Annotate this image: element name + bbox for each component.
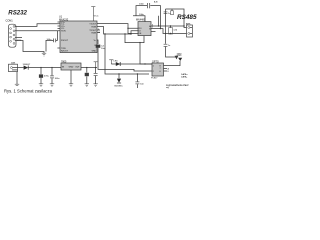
svg-text:MAX485: MAX485 bbox=[136, 18, 146, 21]
svg-text:Rys. 1 Schemat zasilacza: Rys. 1 Schemat zasilacza bbox=[4, 89, 53, 94]
U1 internal pin labels left bbox=[61, 22, 69, 53]
U1 left pin stubs bbox=[57, 22, 60, 48]
node dot R1 top bbox=[170, 25, 171, 26]
ground C2 bbox=[50, 84, 54, 87]
power flag +5V on rail bbox=[94, 62, 98, 68]
optocoupler U4 body bbox=[152, 63, 164, 76]
diode D2 on row bbox=[116, 62, 120, 66]
svg-text:100n: 100n bbox=[47, 39, 53, 41]
ground arrow right bbox=[175, 56, 179, 60]
svg-text:GND: GND bbox=[69, 67, 74, 69]
wire DB9 pin7 stub bbox=[15, 37, 22, 39]
node dot on B bbox=[165, 33, 166, 34]
capacitor C10 bbox=[136, 74, 138, 82]
svg-text:470u: 470u bbox=[44, 75, 50, 77]
wire U1 R1IN routed bbox=[97, 27, 138, 34]
wire U1 bottom right rail down bbox=[105, 34, 149, 74]
node dot R1IN bbox=[130, 33, 131, 34]
connector J1 pins column left bbox=[10, 28, 12, 42]
svg-text:GND: GND bbox=[177, 55, 182, 57]
ground U3 bbox=[69, 84, 73, 87]
svg-text:PC817: PC817 bbox=[151, 78, 158, 80]
node dot A bbox=[158, 25, 159, 26]
svg-text:1N4007: 1N4007 bbox=[23, 64, 31, 66]
wire DE/RE control bbox=[125, 34, 144, 43]
wire R1 to A bbox=[170, 26, 172, 28]
capacitor C9 on vertical bbox=[164, 44, 168, 46]
wire DB9 pin3 to U1 bbox=[15, 30, 60, 32]
svg-text:LED: LED bbox=[114, 60, 119, 62]
wire termination vertical bbox=[165, 9, 167, 44]
diode D1 bbox=[24, 66, 29, 70]
svg-text:T1OUT: T1OUT bbox=[89, 23, 97, 25]
capacitor C2 bbox=[51, 68, 53, 76]
U2 right pin3 stub bbox=[151, 30, 156, 32]
svg-text:BZX85C: BZX85C bbox=[115, 86, 124, 88]
svg-text:wyprowadzenia zlacz: wyprowadzenia zlacz bbox=[166, 84, 189, 87]
node dot B bbox=[160, 28, 161, 29]
wire C9 to ground bbox=[166, 47, 177, 57]
U2 internal labels bbox=[139, 28, 142, 35]
connector J2 body bbox=[187, 25, 193, 37]
svg-text:R1IN: R1IN bbox=[91, 26, 96, 28]
connector J1 DB9 body bbox=[9, 24, 17, 47]
power flag +5V above U1 bbox=[91, 7, 95, 21]
wire DB9 pin5 gnd route bbox=[15, 41, 44, 54]
power jack pin bbox=[11, 67, 13, 69]
svg-text:100n: 100n bbox=[55, 78, 61, 80]
svg-text:R2IN: R2IN bbox=[91, 32, 96, 34]
U1 right stubs bbox=[97, 30, 100, 33]
wire jack to D1 bbox=[18, 67, 24, 69]
node dot bbox=[104, 33, 105, 34]
wire net A vertical bbox=[158, 16, 160, 26]
wire U2 A to connector bbox=[151, 26, 187, 28]
electrolytic capacitor C5 bbox=[86, 68, 88, 73]
svg-text:RS232: RS232 bbox=[8, 10, 27, 17]
connector J2 pins bbox=[188, 27, 190, 35]
wire R1 bottom to B bbox=[170, 33, 172, 36]
wire U2 VCC bbox=[133, 16, 145, 22]
capacitor C8 top right box bbox=[171, 11, 174, 15]
wire cap to net B vertical bbox=[150, 6, 160, 29]
ground C5 bbox=[85, 84, 89, 87]
node dot T1OUT bbox=[127, 28, 128, 29]
svg-text:100n: 100n bbox=[139, 4, 145, 6]
capacitor C3 branch from pin wire bbox=[56, 31, 57, 41]
svg-text:VCC: VCC bbox=[94, 16, 99, 18]
wire jack ground bbox=[16, 72, 18, 84]
wire regulator ground bbox=[70, 70, 72, 84]
svg-text:A B: A B bbox=[154, 1, 158, 4]
wire branch to U2 pin3 bbox=[128, 28, 138, 33]
wire regulator output rail bbox=[81, 67, 97, 69]
svg-text:R1OUT: R1OUT bbox=[61, 40, 69, 42]
wire U4 right top bbox=[164, 61, 181, 66]
capacitor C7 plates bbox=[148, 3, 150, 8]
capacitor C3 plates bbox=[54, 39, 56, 43]
wire U2 B to connector bbox=[151, 29, 187, 34]
wire top right loop bbox=[166, 9, 185, 26]
ground DB9 bbox=[42, 53, 46, 56]
wire LED row bbox=[111, 63, 152, 65]
node dot row bbox=[144, 63, 145, 64]
ground C1 bbox=[39, 84, 43, 87]
ground C6 bbox=[93, 84, 97, 87]
capacitor C3 left lead to ground wire bbox=[46, 40, 53, 51]
resistor R1 termination bbox=[169, 28, 173, 34]
regulator U3 body bbox=[61, 63, 81, 70]
svg-text:R2OUT: R2OUT bbox=[61, 50, 69, 52]
connector J1 pins column right bbox=[13, 26, 15, 45]
U1 pin numbers right bbox=[98, 29, 101, 34]
IC U1 MAX232 body bbox=[60, 21, 97, 53]
U4 right pin stubs bbox=[164, 68, 168, 71]
ground jack bbox=[15, 84, 19, 85]
IC U2 MAX485 body bbox=[138, 22, 151, 36]
svg-text:100n: 100n bbox=[139, 14, 145, 16]
wire VCC rail top bbox=[136, 6, 147, 16]
node dot control bbox=[124, 33, 125, 34]
svg-text:RS485: RS485 bbox=[177, 14, 197, 21]
svg-text:T1IN: T1IN bbox=[61, 31, 66, 33]
wire DB9 pin2 to U1 (jog up) bbox=[15, 24, 60, 27]
U1 internal pin labels right bbox=[89, 23, 97, 52]
power flag right bbox=[178, 58, 182, 61]
power jack X1 body bbox=[9, 64, 18, 71]
diode D3 zener bbox=[118, 74, 120, 78]
node dot R1 bottom bbox=[170, 33, 171, 34]
node dot bbox=[183, 25, 184, 26]
wire D1 to regulator bbox=[28, 67, 61, 69]
wire U1 T1OUT to U2 bbox=[97, 24, 138, 29]
wire control down to LED row bbox=[140, 43, 152, 64]
svg-text:GND: GND bbox=[92, 50, 97, 52]
svg-text:OUT: OUT bbox=[75, 67, 80, 69]
svg-text:DATA-: DATA- bbox=[181, 75, 188, 78]
capacitor plates on vertical bbox=[164, 12, 168, 14]
wire C4 down to L2 bbox=[98, 48, 152, 71]
power flag +5V LED row bbox=[109, 60, 113, 64]
electrolytic capacitor C4 on U1 V- bbox=[97, 40, 98, 44]
node dot bbox=[139, 42, 140, 43]
capacitor C6 bbox=[95, 68, 97, 74]
electrolytic capacitor C1 bbox=[40, 68, 42, 75]
svg-text:CON1: CON1 bbox=[6, 19, 14, 23]
